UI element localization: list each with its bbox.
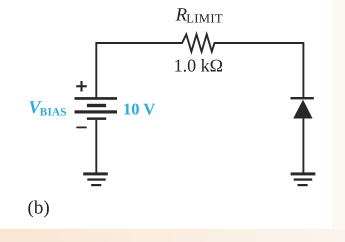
svg-text:(b): (b) [28,197,50,218]
svg-text:LIMIT: LIMIT [186,12,223,26]
svg-text:BIAS: BIAS [40,107,67,119]
svg-text:1.0 kΩ: 1.0 kΩ [174,56,223,76]
svg-text:10 V: 10 V [123,100,155,119]
